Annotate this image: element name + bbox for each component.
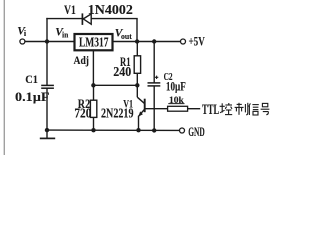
label V1 (diode) — [64, 2, 76, 17]
terminal +5V — [181, 39, 186, 44]
label Adj — [74, 53, 90, 67]
node input junction — [45, 39, 49, 43]
label 720 — [74, 105, 91, 120]
wire R2 branch bottom — [93, 117, 95, 130]
diode V1 1N4002 — [82, 13, 91, 25]
wire bottom ground rail — [47, 129, 180, 131]
node C1 bottom junction — [45, 128, 49, 132]
wire Adj horizontal link — [93, 84, 137, 86]
wire diode top branch — [46, 18, 137, 20]
wire riser to diode branch — [46, 18, 48, 42]
label Chinese char zhi (system) — [235, 103, 248, 115]
wire diode branch drop — [136, 19, 138, 42]
svg-text:+5V: +5V — [189, 35, 205, 49]
LM317 regulator U1 — [75, 34, 113, 51]
svg-text:TTL: TTL — [202, 102, 219, 118]
node C2 top junction — [152, 39, 156, 43]
capacitor C2 (polarized) — [148, 76, 161, 86]
label Vi — [17, 26, 27, 38]
ground stub — [40, 130, 55, 138]
wire C2 branch lower — [153, 86, 155, 130]
wire C1 branch upper — [46, 42, 48, 86]
label R1 — [120, 55, 131, 69]
wire C2 branch upper — [153, 42, 155, 83]
label C2 — [164, 72, 173, 83]
node R2 bottom junction — [91, 128, 95, 132]
label GND — [188, 125, 205, 139]
wire C1 branch lower — [46, 88, 48, 130]
label Chinese char kong (control) — [220, 103, 233, 115]
resistor R1 — [134, 56, 140, 74]
label Vout — [115, 27, 132, 40]
svg-text:10µF: 10µF — [166, 78, 186, 93]
svg-text:720: 720 — [74, 105, 91, 120]
svg-text:1N4002: 1N4002 — [88, 2, 133, 17]
label Chinese char xin (signal-1) — [249, 103, 259, 115]
label 10k — [168, 96, 184, 106]
wire transistor base lead — [145, 108, 168, 110]
svg-text:LM317: LM317 — [79, 36, 109, 51]
wire LM317 Adj lead — [92, 51, 94, 85]
node diode/R1 junction — [135, 39, 139, 43]
label 1N4002 — [88, 2, 133, 17]
svg-text:Adj: Adj — [74, 53, 90, 67]
wire R1 branch bottom — [136, 73, 138, 85]
label Chinese char hao (signal-2) — [261, 103, 270, 114]
capacitor C1 — [41, 85, 54, 88]
label 2N2219 — [101, 106, 134, 121]
wire R2 branch top — [93, 85, 95, 100]
label V1 (transistor) — [123, 97, 133, 111]
label Vin — [55, 27, 69, 40]
svg-text:in: in — [62, 30, 69, 39]
wire output rail — [114, 41, 181, 43]
terminal Vi — [20, 39, 25, 44]
label 240 — [113, 64, 131, 79]
transistor Q1 base bar — [144, 99, 146, 113]
terminal GND — [180, 128, 185, 133]
svg-text:240: 240 — [113, 64, 131, 79]
node C2 bottom junction — [152, 128, 156, 132]
svg-text:0.1µF: 0.1µF — [15, 89, 50, 104]
label TTL — [202, 102, 219, 118]
label +5V — [189, 35, 205, 49]
node emitter junction — [136, 128, 140, 132]
resistor 10k — [168, 106, 188, 111]
wire R1 branch top — [136, 42, 138, 56]
node R1/collector junction — [135, 83, 139, 87]
resistor R2 — [90, 100, 96, 117]
svg-text:out: out — [121, 32, 132, 41]
wire 10k to TTL — [188, 108, 201, 110]
svg-text:GND: GND — [188, 125, 205, 139]
label C1 — [25, 72, 38, 86]
svg-text:V1: V1 — [64, 2, 76, 17]
label R2 — [78, 97, 90, 111]
wire transistor collector — [137, 85, 144, 103]
label 0.1uF — [15, 89, 50, 104]
label 10uF — [166, 78, 186, 93]
svg-text:10k: 10k — [169, 96, 185, 106]
svg-text:2N2219: 2N2219 — [101, 106, 134, 121]
page border rule (left) — [3, 0, 5, 155]
svg-text:C1: C1 — [25, 72, 38, 86]
node Adj/R2 junction — [91, 83, 95, 87]
wire transistor emitter — [138, 109, 144, 130]
wire input rail — [25, 41, 74, 43]
